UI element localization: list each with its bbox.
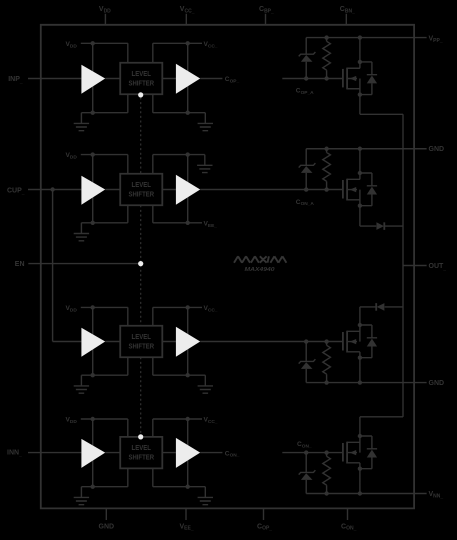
svg-text:GND: GND [429, 380, 445, 387]
svg-text:EN: EN [15, 261, 25, 268]
svg-text:SHIFTER: SHIFTER [129, 78, 155, 87]
svg-text:MAX4940: MAX4940 [245, 267, 275, 273]
svg-text:LEVEL: LEVEL [132, 180, 152, 189]
svg-text:GND: GND [429, 146, 445, 153]
svg-text:LEVEL: LEVEL [132, 443, 152, 452]
svg-text:SHIFTER: SHIFTER [129, 452, 155, 461]
svg-text:LEVEL: LEVEL [132, 332, 152, 341]
svg-text:LEVEL: LEVEL [132, 69, 152, 78]
svg-text:SHIFTER: SHIFTER [129, 189, 155, 198]
svg-text:SHIFTER: SHIFTER [129, 341, 155, 350]
svg-text:GND: GND [99, 523, 115, 530]
